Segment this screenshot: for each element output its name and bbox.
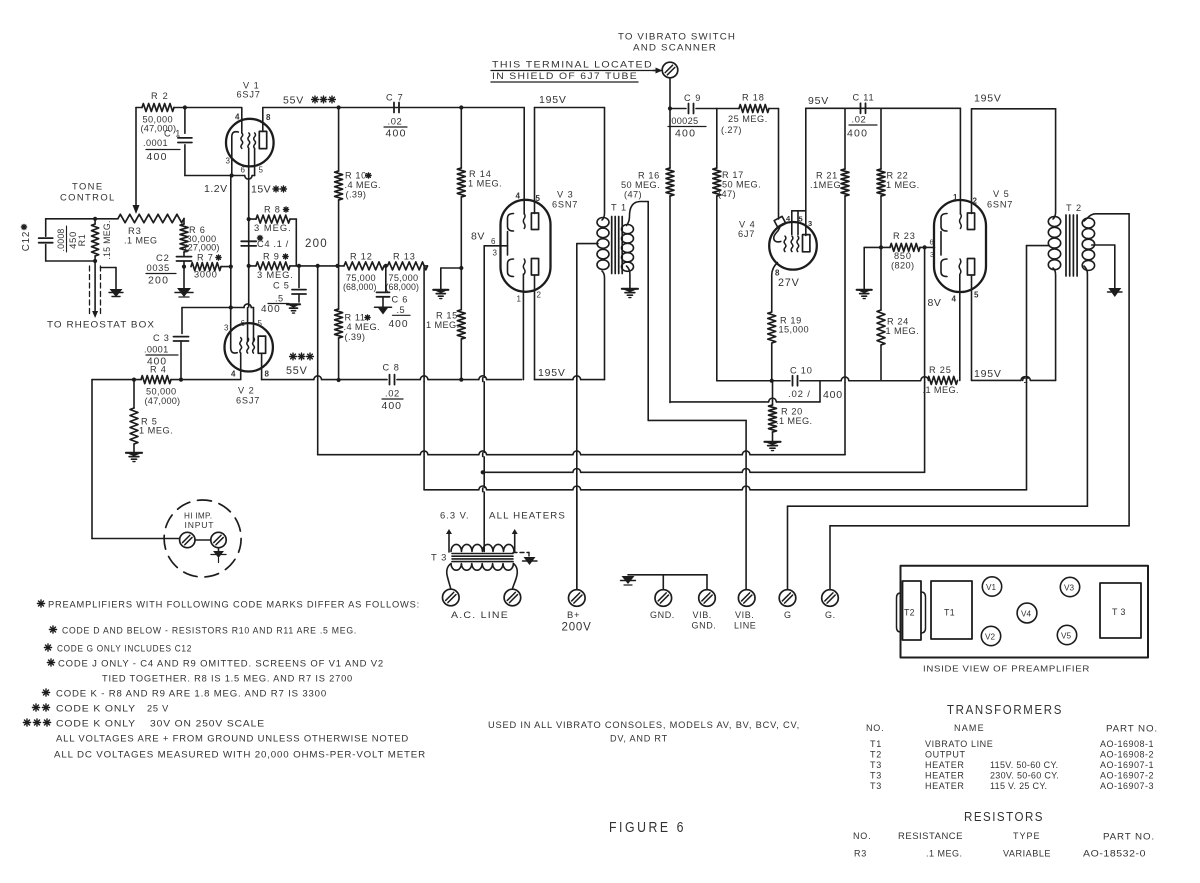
svg-text:IN SHIELD OF 6J7 TUBE: IN SHIELD OF 6J7 TUBE bbox=[492, 70, 638, 81]
svg-text:RESISTORS: RESISTORS bbox=[964, 810, 1044, 824]
resistor R12 75,000 bbox=[344, 262, 384, 270]
svg-text:(47): (47) bbox=[718, 189, 736, 199]
capacitor C12 loop bbox=[46, 218, 118, 220]
55V plate bus of V2 (y380) bbox=[262, 379, 387, 381]
svg-text:T3: T3 bbox=[870, 760, 882, 770]
195V wire V5 pin5 to T2 bbox=[972, 379, 1056, 381]
svg-text:6: 6 bbox=[241, 319, 246, 328]
svg-text:.00025: .00025 bbox=[669, 116, 699, 126]
G. terminal bbox=[829, 526, 831, 590]
T2 secondary tap to ground arrow bbox=[1092, 244, 1115, 246]
svg-text:CODE K ONLY: CODE K ONLY bbox=[56, 719, 136, 729]
svg-text:VIBRATO LINE: VIBRATO LINE bbox=[925, 739, 993, 749]
V3 pin2 wire to T1 bus bbox=[534, 276, 536, 380]
svg-text:C12: C12 bbox=[21, 231, 32, 251]
capacitor C7 bbox=[393, 103, 395, 113]
wire R22 to R23 node bbox=[880, 196, 882, 247]
ground bus for GND terminals bbox=[628, 574, 707, 576]
wire terminal down through C9 to R16 bbox=[669, 78, 671, 168]
svg-text:HEATER: HEATER bbox=[925, 781, 964, 791]
V5 pin2 plate wire to 195V bbox=[971, 109, 973, 214]
svg-text:0035: 0035 bbox=[147, 262, 170, 273]
svg-text:C 10: C 10 bbox=[790, 366, 813, 376]
svg-text:1 MEG.: 1 MEG. bbox=[468, 179, 502, 189]
svg-text:4: 4 bbox=[952, 295, 957, 304]
svg-text:R 9: R 9 bbox=[263, 252, 280, 262]
svg-text:G: G bbox=[784, 610, 792, 620]
C12 label bbox=[21, 231, 32, 251]
svg-text:3: 3 bbox=[226, 157, 231, 166]
T1 core bbox=[611, 217, 613, 274]
resistor R2 bbox=[142, 104, 174, 112]
svg-text:55V: 55V bbox=[283, 95, 304, 107]
svg-text:CODE J ONLY - C4 AND R9 OMITTE: CODE J ONLY - C4 AND R9 OMITTED. SCREENS… bbox=[58, 659, 384, 669]
wire R24 to 195V bus bbox=[880, 345, 882, 381]
svg-text:8V: 8V bbox=[471, 231, 485, 243]
svg-text:115V. 50-60 CY.: 115V. 50-60 CY. bbox=[990, 760, 1058, 770]
chassis ground symbol bbox=[622, 576, 635, 584]
wire C11 right to R22 bbox=[880, 108, 882, 169]
svg-text:95V: 95V bbox=[808, 95, 829, 107]
svg-text:.1 MEG: .1 MEG bbox=[124, 236, 158, 246]
V4 grid hook and cap lead bbox=[774, 227, 781, 242]
screen line R9 node down to bus1 bbox=[317, 266, 319, 455]
V1 grid line down to V2 grid bbox=[230, 176, 232, 308]
svg-text:115 V. 25 CY.: 115 V. 25 CY. bbox=[990, 781, 1047, 791]
T1 secondary top wire down to VIB LINE bbox=[647, 202, 649, 421]
svg-text:R 10: R 10 bbox=[345, 171, 367, 181]
svg-text:1 MEG.: 1 MEG. bbox=[426, 320, 460, 330]
svg-text:(27,000): (27,000) bbox=[185, 243, 220, 253]
wire R2 to V1 pin4 bbox=[174, 107, 241, 109]
svg-text:5: 5 bbox=[536, 194, 541, 203]
svg-text:INPUT: INPUT bbox=[185, 520, 215, 530]
svg-text:8: 8 bbox=[265, 370, 270, 379]
svg-text:T2: T2 bbox=[904, 608, 915, 618]
svg-text:5: 5 bbox=[974, 291, 979, 300]
svg-text:.0008: .0008 bbox=[56, 228, 66, 251]
bus2 y472.3 heater/cathode bus bbox=[483, 471, 925, 473]
svg-text:LINE: LINE bbox=[734, 621, 756, 631]
wire hop bumps bbox=[314, 378, 321, 381]
T3 secondary winding with arrows bbox=[448, 534, 450, 552]
resistor R18 25 MEG bbox=[717, 108, 739, 110]
svg-text:V4: V4 bbox=[1021, 610, 1031, 619]
svg-text:R 21: R 21 bbox=[816, 171, 838, 181]
svg-text:400: 400 bbox=[823, 389, 843, 401]
VIB LINE terminal bbox=[738, 590, 755, 607]
capacitor C8 in bus bbox=[389, 375, 391, 385]
wire V2 grid top bbox=[182, 307, 244, 309]
resistor R1 .15 MEG bbox=[92, 224, 99, 256]
V5 in box bbox=[1057, 625, 1076, 644]
R8 right wire down to R9 bbox=[290, 218, 296, 220]
svg-text:.02: .02 bbox=[385, 388, 400, 399]
svg-text:R 14: R 14 bbox=[469, 169, 492, 179]
svg-text:FIGURE 6: FIGURE 6 bbox=[609, 820, 686, 836]
svg-text:V 2: V 2 bbox=[238, 386, 255, 396]
svg-text:400: 400 bbox=[847, 128, 868, 140]
ground under C5 bbox=[287, 303, 300, 305]
svg-text:R 18: R 18 bbox=[742, 93, 765, 103]
svg-text:TIED TOGETHER. R8 IS 1.5 MEG.: TIED TOGETHER. R8 IS 1.5 MEG. AND R7 IS … bbox=[102, 674, 353, 684]
VIB LINE wire down bbox=[745, 420, 747, 589]
T1 secondary ground bbox=[622, 288, 638, 290]
C12 value rotated bbox=[56, 228, 66, 251]
svg-text:R 16: R 16 bbox=[638, 171, 660, 181]
svg-text:TO RHEOSTAT BOX: TO RHEOSTAT BOX bbox=[47, 319, 155, 330]
V5 pin1 wire from 95V bus bbox=[959, 108, 961, 214]
resistor R16 50 MEG bbox=[666, 168, 674, 196]
svg-text:1: 1 bbox=[517, 295, 522, 304]
svg-text:AO-16907-2: AO-16907-2 bbox=[1100, 771, 1154, 781]
T3 primary winding bbox=[451, 564, 513, 571]
svg-text:1 MEG.: 1 MEG. bbox=[886, 180, 920, 190]
svg-text:(.27): (.27) bbox=[721, 125, 742, 135]
svg-text:R 2: R 2 bbox=[151, 91, 169, 101]
wire R19 to 195V bus bbox=[771, 343, 773, 381]
svg-text:4: 4 bbox=[516, 192, 521, 201]
svg-text:195V: 195V bbox=[974, 368, 1002, 380]
V1 pin 8 plate wire bbox=[262, 108, 264, 132]
wire R15 to 55V bus bbox=[460, 339, 462, 380]
svg-text:PART NO.: PART NO. bbox=[1103, 832, 1155, 842]
wire R18 to V4 grid cap bbox=[769, 108, 779, 110]
bus1 y454.7 screen bus bbox=[318, 454, 845, 456]
svg-text:3 MEG.: 3 MEG. bbox=[257, 269, 294, 280]
wire R13 right down to bus3 bbox=[424, 265, 427, 267]
T3 shield dashed to ground bbox=[513, 552, 529, 554]
resistor R13 75,000 bbox=[388, 262, 428, 270]
svg-text:R 15: R 15 bbox=[436, 311, 458, 321]
svg-text:25 V: 25 V bbox=[147, 704, 169, 714]
svg-text:6SJ7: 6SJ7 bbox=[236, 396, 260, 406]
scanner terminal bbox=[662, 62, 678, 78]
V1 pin5 wire and hop on C1 wire bbox=[245, 176, 252, 180]
svg-text:3: 3 bbox=[224, 324, 229, 333]
svg-text:400: 400 bbox=[675, 128, 696, 140]
wire V1 plate to V3 pin4 (top bus) bbox=[263, 107, 524, 109]
label *** 55V at V2 bbox=[290, 356, 297, 358]
svg-text:.1 MEG.: .1 MEG. bbox=[926, 849, 963, 859]
svg-text:.1MEG: .1MEG bbox=[810, 180, 841, 190]
ground branch from rheostat wire bbox=[101, 267, 117, 269]
resistor R23 850 bbox=[864, 246, 890, 248]
R3 wiper arrow bbox=[133, 205, 140, 214]
resistor R10 .4 MEG bbox=[338, 108, 340, 172]
resistor R11 .4 MEG bbox=[335, 309, 343, 338]
A.C. LINE terminals bbox=[443, 589, 460, 606]
svg-text:T 2: T 2 bbox=[1066, 203, 1082, 213]
svg-text:TO VIBRATO SWITCH: TO VIBRATO SWITCH bbox=[618, 31, 736, 42]
svg-text:.0001: .0001 bbox=[144, 345, 169, 355]
capacitor C11 bbox=[860, 103, 862, 113]
tube V2 6SJ7 bbox=[225, 323, 273, 371]
svg-text:V 4: V 4 bbox=[739, 220, 756, 230]
svg-text:(.39): (.39) bbox=[345, 332, 366, 342]
svg-text:.5: .5 bbox=[397, 305, 405, 315]
svg-text:USED IN ALL VIBRATO CONSOLES,: USED IN ALL VIBRATO CONSOLES, MODELS AV,… bbox=[488, 720, 800, 730]
svg-text:CODE K ONLY: CODE K ONLY bbox=[56, 704, 136, 714]
svg-text:.5: .5 bbox=[275, 294, 284, 304]
svg-text:50,000: 50,000 bbox=[146, 387, 177, 397]
T2 secondary winding bbox=[1084, 214, 1129, 221]
svg-text:R 8: R 8 bbox=[264, 205, 281, 215]
svg-text:CONTROL: CONTROL bbox=[60, 192, 116, 203]
resistor R9 3 MEG bbox=[247, 264, 251, 268]
svg-text:C 11: C 11 bbox=[853, 93, 875, 103]
svg-text:200: 200 bbox=[305, 238, 328, 250]
svg-text:C 6: C 6 bbox=[392, 295, 409, 305]
wire R14 to R15 bbox=[460, 197, 462, 310]
svg-text:2: 2 bbox=[973, 197, 978, 206]
svg-text:(68,000): (68,000) bbox=[343, 282, 377, 292]
svg-text:C 5: C 5 bbox=[273, 281, 290, 291]
svg-text:200: 200 bbox=[148, 275, 169, 287]
tube V4 6J7 bbox=[769, 222, 817, 270]
svg-text:27V: 27V bbox=[778, 277, 800, 289]
svg-text:6.3 V.: 6.3 V. bbox=[440, 510, 470, 521]
resistor R8 3 MEG bbox=[247, 217, 251, 221]
svg-text:NAME: NAME bbox=[954, 723, 985, 733]
resistor R15 1 MEG bbox=[457, 310, 465, 339]
V1 in box bbox=[982, 577, 1001, 596]
svg-text:3: 3 bbox=[493, 249, 498, 258]
svg-text:V2: V2 bbox=[985, 633, 995, 642]
bus3 y489.8 bbox=[424, 489, 1026, 491]
R23 ground bbox=[863, 247, 865, 289]
svg-text:.1 MEG.: .1 MEG. bbox=[923, 385, 960, 395]
capacitor C3 bbox=[181, 308, 183, 334]
svg-text:G.: G. bbox=[825, 610, 836, 620]
svg-text:V 3: V 3 bbox=[557, 190, 574, 200]
svg-text:ALL VOLTAGES ARE + FROM GROUND: ALL VOLTAGES ARE + FROM GROUND UNLESS OT… bbox=[56, 734, 409, 744]
svg-text:V 5: V 5 bbox=[993, 189, 1010, 199]
svg-text:5: 5 bbox=[259, 166, 264, 175]
V5 pin5 wire down bbox=[971, 276, 973, 380]
V3 grid stub 8V bbox=[484, 245, 507, 247]
capacitor C1 bbox=[184, 108, 186, 134]
svg-text:400: 400 bbox=[386, 128, 407, 140]
capacitor C4 bbox=[241, 240, 256, 242]
tube V5 6SN7 bbox=[934, 200, 986, 292]
svg-text:3 MEG.: 3 MEG. bbox=[254, 222, 292, 233]
95V wire right bbox=[806, 107, 961, 109]
notes preamplifier codes bbox=[37, 603, 44, 605]
svg-text:R1: R1 bbox=[77, 234, 87, 247]
V4 plate wire to 95V bbox=[805, 108, 807, 235]
wire R4 left to input bbox=[92, 379, 141, 381]
V4 pins 4 5 bracket to plate line bbox=[792, 210, 806, 212]
svg-text:V5: V5 bbox=[1061, 632, 1071, 641]
svg-text:195V: 195V bbox=[974, 93, 1002, 105]
svg-text:DV, AND RT: DV, AND RT bbox=[610, 734, 668, 744]
resistor R22 1 MEG bbox=[877, 169, 885, 196]
svg-text:30V ON 250V SCALE: 30V ON 250V SCALE bbox=[150, 719, 265, 729]
resistor R14 1 MEG bbox=[460, 108, 462, 169]
svg-text:R 23: R 23 bbox=[893, 231, 916, 241]
svg-text:TONE: TONE bbox=[72, 181, 103, 192]
svg-text:6SJ7: 6SJ7 bbox=[237, 90, 261, 100]
svg-text:ALL DC VOLTAGES MEASURED WITH: ALL DC VOLTAGES MEASURED WITH 20,000 OHM… bbox=[54, 750, 426, 760]
wire R11 to 55V bus bbox=[338, 338, 340, 380]
svg-text:T 1: T 1 bbox=[611, 203, 627, 213]
svg-text:(47): (47) bbox=[624, 190, 642, 200]
svg-text:C 1: C 1 bbox=[164, 129, 181, 139]
svg-text:R 4: R 4 bbox=[150, 365, 167, 375]
svg-text:R 20: R 20 bbox=[781, 407, 803, 417]
capacitor C6 with ground bbox=[384, 264, 388, 268]
wire R9 to R12 bbox=[290, 265, 344, 267]
svg-text:8V: 8V bbox=[928, 297, 942, 309]
svg-text:CODE D AND BELOW - RESISTORS R: CODE D AND BELOW - RESISTORS R10 AND R11… bbox=[62, 626, 357, 636]
resistor R19 15,000 bbox=[768, 312, 776, 343]
wire R17 down to 195V bus bbox=[716, 196, 718, 381]
svg-text:50 MEG.: 50 MEG. bbox=[722, 180, 761, 190]
svg-text:R 25: R 25 bbox=[929, 365, 952, 375]
svg-text:(68,000): (68,000) bbox=[386, 282, 420, 292]
resistor R20 .1 MEG bbox=[772, 381, 774, 405]
svg-text:AO-16908-1: AO-16908-1 bbox=[1100, 739, 1154, 749]
svg-text:1 MEG.: 1 MEG. bbox=[886, 326, 920, 336]
B+ terminal bbox=[576, 490, 578, 590]
T3 core bbox=[452, 553, 513, 555]
tube V1 6SJ7 bbox=[226, 119, 274, 167]
svg-text:230V. 50-60 CY.: 230V. 50-60 CY. bbox=[990, 771, 1059, 781]
svg-text:195V: 195V bbox=[538, 367, 566, 379]
svg-text:.0001: .0001 bbox=[143, 138, 168, 148]
svg-text:VARIABLE: VARIABLE bbox=[1003, 849, 1051, 859]
svg-text:INSIDE VIEW OF PREAMPLIFIER: INSIDE VIEW OF PREAMPLIFIER bbox=[923, 664, 1090, 674]
GND terminal bbox=[655, 590, 672, 607]
T2 right top wire down to G. wire bbox=[1128, 214, 1130, 526]
resistor R7 3000 bbox=[191, 263, 221, 271]
svg-text:GND.: GND. bbox=[692, 621, 717, 631]
arrow to scanner terminal bbox=[653, 70, 661, 72]
svg-text:V3: V3 bbox=[1064, 584, 1074, 593]
svg-text:T3: T3 bbox=[870, 781, 882, 791]
capacitor C2 bbox=[183, 252, 185, 256]
resistor R4 bbox=[141, 376, 171, 384]
svg-text:T 3: T 3 bbox=[431, 552, 447, 563]
ground under R20 bbox=[772, 432, 774, 441]
resistor R17 50 MEG bbox=[713, 168, 721, 196]
svg-text:V1: V1 bbox=[986, 583, 996, 592]
wire to rheostat shield (dashed) bbox=[94, 261, 96, 312]
svg-text:(47,000): (47,000) bbox=[145, 396, 181, 406]
svg-text:HEATER: HEATER bbox=[925, 771, 964, 781]
svg-text:400: 400 bbox=[147, 151, 168, 163]
T3 in box bbox=[1100, 583, 1141, 638]
svg-text:4: 4 bbox=[235, 113, 240, 122]
svg-text:1: 1 bbox=[953, 193, 958, 202]
G. terminal wire right bbox=[830, 525, 1129, 527]
svg-text:THIS TERMINAL LOCATED: THIS TERMINAL LOCATED bbox=[492, 59, 653, 70]
wire R16 node to C10 riser bbox=[670, 401, 820, 403]
svg-text:T1: T1 bbox=[944, 608, 955, 618]
195V bus right (y380.75) bbox=[717, 380, 790, 382]
wire C11 left to R21 bbox=[844, 108, 846, 169]
svg-text:R 11: R 11 bbox=[345, 313, 366, 323]
svg-text:GND.: GND. bbox=[650, 610, 675, 620]
svg-text:6: 6 bbox=[491, 237, 496, 246]
svg-text:1 MEG.: 1 MEG. bbox=[139, 426, 173, 436]
VIB GND terminal bbox=[699, 590, 716, 607]
wire C9 right down to R17 bbox=[716, 109, 718, 169]
capacitor C10 in bus bbox=[792, 376, 794, 386]
wire R7 to V1 grid line bbox=[221, 266, 231, 268]
svg-text:ALL HEATERS: ALL HEATERS bbox=[489, 510, 566, 521]
G terminal wire right bbox=[788, 505, 1088, 507]
svg-text:T3: T3 bbox=[870, 771, 882, 781]
svg-text:6SN7: 6SN7 bbox=[987, 200, 1013, 210]
C10 frame riser bbox=[819, 381, 821, 402]
svg-text:1.2V: 1.2V bbox=[204, 183, 228, 195]
V4 in box bbox=[1017, 603, 1037, 623]
svg-text:R 12: R 12 bbox=[350, 252, 373, 262]
V2 in box bbox=[981, 626, 1000, 645]
svg-text:R 24: R 24 bbox=[887, 317, 909, 327]
svg-text:VIB.: VIB. bbox=[693, 610, 712, 620]
svg-text:.02 /: .02 / bbox=[788, 389, 811, 400]
svg-text:B+: B+ bbox=[567, 609, 580, 620]
svg-text:850: 850 bbox=[894, 251, 912, 261]
svg-text:400: 400 bbox=[261, 304, 281, 315]
svg-text:.4 MEG.: .4 MEG. bbox=[344, 322, 381, 332]
resistor R21 .1MEG bbox=[841, 169, 849, 196]
svg-text:R 13: R 13 bbox=[393, 252, 416, 262]
svg-text:AO-16907-3: AO-16907-3 bbox=[1100, 781, 1154, 791]
svg-text:NO.: NO. bbox=[866, 723, 884, 733]
svg-text:AO-16908-2: AO-16908-2 bbox=[1100, 750, 1154, 760]
svg-text:25 MEG.: 25 MEG. bbox=[728, 114, 768, 124]
V4 grid cap bbox=[774, 216, 786, 227]
svg-text:3000: 3000 bbox=[194, 270, 218, 280]
potentiometer R3 bbox=[118, 214, 184, 222]
T2 core bbox=[1065, 215, 1067, 276]
svg-text:400: 400 bbox=[389, 319, 409, 330]
svg-text:PART NO.: PART NO. bbox=[1106, 724, 1158, 734]
wire R16 down to R20 node bbox=[669, 196, 671, 403]
V2 pin4 wire to R4 bus bbox=[240, 353, 242, 380]
capacitor C5 bbox=[298, 266, 300, 288]
wire R10 to R11 bbox=[338, 200, 340, 309]
svg-text:.15 MEG.: .15 MEG. bbox=[102, 220, 112, 260]
ground under C2 bbox=[183, 267, 185, 288]
resistor R24 1 MEG bbox=[880, 247, 882, 310]
svg-text:TYPE: TYPE bbox=[1013, 831, 1041, 841]
V1 pin 4 wire bbox=[241, 108, 243, 134]
svg-text:NO.: NO. bbox=[853, 831, 871, 841]
V1 pin6 wire down to R8/C4/R9 bbox=[248, 149, 250, 308]
T2 in box bbox=[903, 581, 922, 640]
8V line down to bus2 bbox=[924, 247, 926, 472]
svg-text:C 9: C 9 bbox=[684, 93, 701, 103]
svg-text:.02: .02 bbox=[388, 116, 403, 127]
svg-text:R 7: R 7 bbox=[197, 253, 214, 263]
svg-text:T 3: T 3 bbox=[1112, 607, 1126, 617]
HI IMP INPUT dashed circle bbox=[164, 500, 241, 577]
V5 pin4 wire to R25 bbox=[959, 275, 961, 381]
V2 pin5 wire and hop bbox=[244, 304, 251, 308]
svg-text:15,000: 15,000 bbox=[779, 325, 810, 335]
svg-text:AO-18532-0: AO-18532-0 bbox=[1083, 849, 1146, 859]
svg-text:OUTPUT: OUTPUT bbox=[925, 750, 966, 760]
wire V3 pin5 to T1 primary top bbox=[535, 107, 605, 109]
svg-text:6: 6 bbox=[241, 166, 246, 175]
heater line V3 to T3 center tap bbox=[483, 246, 485, 532]
inside view of preamplifier box bbox=[901, 566, 1149, 658]
